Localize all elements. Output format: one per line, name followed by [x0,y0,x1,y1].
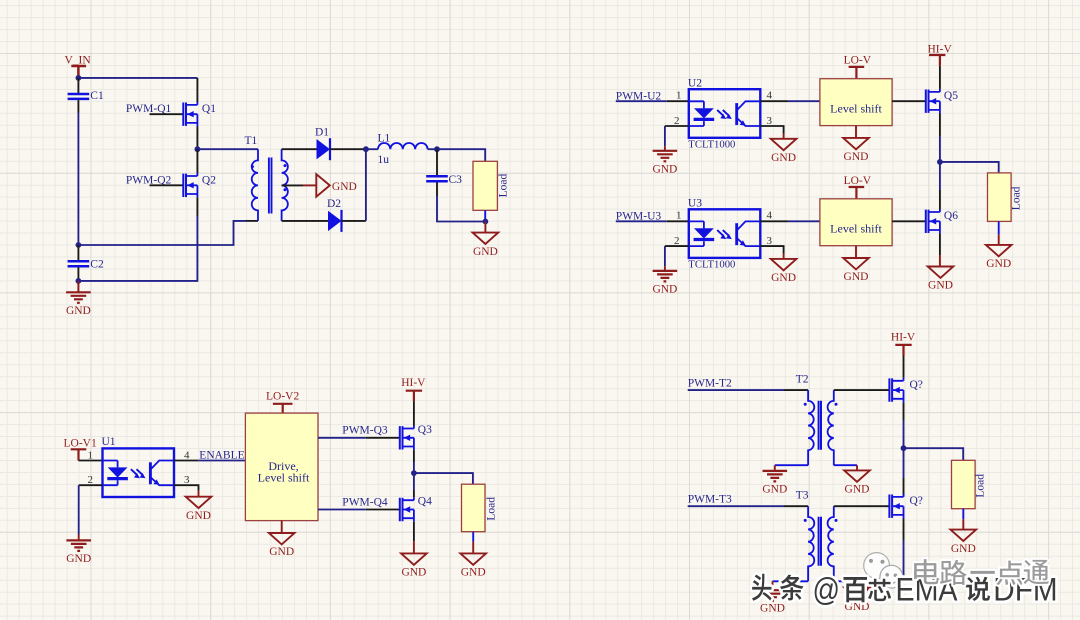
wire D1 cathode to node [330,148,366,150]
wire U2 pin2 to GND [664,126,666,146]
svg-text:T1: T1 [245,135,258,147]
wire to T2 primary [784,389,808,391]
wire GND stem [78,535,80,541]
wire T1 primary bottom pin [246,220,258,222]
transistor Q? (lower) [889,494,903,519]
wire T3 secondary to Q gate [834,505,890,507]
junction node at C2 top [76,242,82,248]
U1 pin 1 wire [79,460,103,462]
wire Q5 source to mid node [939,136,941,162]
U3 pin 3 wire [760,246,783,254]
wire GND stem [198,491,200,497]
power ground GND (Q6 source) [928,267,954,292]
junction node Q3-Q4 midpoint [411,470,417,476]
power port V_IN [65,55,92,78]
ground GND (top-left) [66,292,91,317]
resistor Load (top-right) [988,173,1023,222]
junction node at C2 bottom [76,278,82,284]
resistor Load (bottom-right) [952,460,987,508]
wire GND stem [664,146,666,151]
junction node Q1-Q2 midpoint [195,146,201,152]
transformer T2 [804,390,838,465]
svg-text:HI-V: HI-V [891,331,916,343]
svg-text:LO-V: LO-V [844,175,872,187]
svg-text:Q?: Q? [910,379,923,391]
wire U3 pin2 to GND [664,246,666,266]
power ground GND (level shift) [843,258,869,283]
wire Load1 bottom pin [484,210,486,221]
wire Q source to mid node [903,420,905,448]
wire T3 secondary bottom [834,580,857,582]
capacitor C1 pin top [77,78,79,93]
svg-text:GND: GND [66,305,91,317]
svg-text:LO-V: LO-V [844,55,872,67]
U3 pin 4 wire [760,220,788,222]
svg-text:Load: Load [1011,186,1023,210]
junction node Q-Q midpoint [901,445,907,451]
svg-text:D1: D1 [315,126,329,138]
U1 pin 3 wire [174,485,199,490]
svg-text:2: 2 [88,474,94,486]
wire GND stem T3 secondary [856,581,858,587]
svg-text:HI-V: HI-V [928,43,953,55]
svg-text:PWM-Q4: PWM-Q4 [342,496,388,508]
wire Q4 source down [413,522,415,541]
ground GND (T2 primary) [762,471,787,496]
svg-text:GND: GND [951,543,976,555]
svg-text:Q?: Q? [910,495,923,507]
svg-text:T3: T3 [796,489,809,501]
power port LO-V1 [64,437,97,460]
svg-text:GND: GND [762,483,787,495]
wire lower Q drain [903,448,905,478]
wire Q2 source down [196,198,198,216]
wire Q4 drain [413,473,415,490]
svg-text:GND: GND [652,283,677,295]
svg-text:Load: Load [486,497,498,521]
U2 pin 3 wire [760,126,783,134]
power port HI-V (bottom-left) [401,377,426,401]
svg-text:3: 3 [184,474,190,486]
svg-text:Load: Load [975,474,987,498]
svg-text:U2: U2 [688,77,702,89]
svg-text:Level shift: Level shift [258,470,310,484]
wire C3 bottom to Load1 bottom [437,196,485,222]
power ground GND (bottom-right load) [951,530,977,555]
wire GND stem T2 primary [774,465,776,471]
wire HI-V to Q3 drain [413,401,415,425]
svg-text:GND: GND [401,567,426,579]
transistor Q2 [183,173,197,198]
power ground GND (U3 pin3) [771,259,797,284]
optocoupler U3 [689,209,761,258]
svg-text:TCLT1000: TCLT1000 [688,139,735,151]
wire Q5 source down [939,114,941,137]
wire Load2 bottom pin [998,221,1000,234]
wire net PWM-U2 [616,100,667,102]
transistor Q3 [400,426,414,451]
wire Q1 gate pin [150,113,184,115]
wire D2 cathode to node [342,220,366,222]
resistor Load (top-left) [473,161,509,210]
wire GND stem Load3 [472,542,474,554]
power port HI-V (bottom-right) [891,331,916,355]
wire V_IN rail to Q1 drain [78,77,197,79]
power ground GND (level shift) [843,138,869,163]
svg-text:C1: C1 [90,90,104,102]
transistor Q1 [183,102,197,127]
wire Q2 drain pin [196,149,198,173]
watermark text 头条 @百芯EMA说DFM [752,572,1058,608]
level shift block (Q5 driver) [820,79,892,126]
svg-text:U3: U3 [688,197,702,209]
drive / level shift block [245,413,318,520]
wire Q6 drain pin [939,190,941,209]
svg-text:Q2: Q2 [202,174,216,186]
wire GND stem level-shift [855,246,857,258]
power port LO-V2 [266,390,299,413]
wire T2 primary return [775,464,808,466]
svg-text:LO-V1: LO-V1 [64,437,97,449]
capacitor C1 [68,90,104,102]
wire GND stem level-shift [855,126,857,138]
svg-text:ENABLE: ENABLE [199,449,244,461]
wire T1 center tap [282,184,303,186]
resistor Load (bottom-left) [462,484,498,532]
transformer T1 [251,149,288,221]
power port LO-V [844,175,872,199]
diode D1 [317,138,331,160]
U2 pin 1 wire [667,100,689,102]
wire node to Load1 top [437,149,485,161]
svg-text:GND: GND [844,271,869,283]
wire C1 to lower node [77,113,79,246]
svg-text:D2: D2 [327,198,341,210]
transistor Q5 [926,89,940,114]
junction node Q5-Q6 midpoint [937,159,943,165]
svg-text:GND: GND [928,280,953,292]
power port HI-V (top-right) [928,43,953,66]
wire GND stem Load1 [484,222,486,233]
svg-text:Level shift: Level shift [830,222,882,236]
power ground GND (U2 pin3) [771,139,797,164]
power ground GND (T2 secondary) [844,470,870,495]
U3 pin 2 wire [665,245,689,247]
U2 pin 2 wire [665,125,689,127]
wire GND stem T3 primary [772,581,774,590]
svg-text:GND: GND [461,567,486,579]
wire mid node to Load2 [940,162,999,173]
svg-text:Q6: Q6 [944,210,958,222]
wire GND stem drive block [281,521,283,533]
power ground GND (drive block) [269,533,295,558]
wire GND stem [783,254,785,259]
svg-text:Level shift: Level shift [830,102,882,116]
wire L1 to C3 node [428,148,437,150]
wire U2 pin4 to level shift [788,100,820,102]
wire Q1 drain pin [196,78,198,102]
svg-text:GND: GND [269,546,294,558]
inductor L1 [378,143,428,149]
wire node to L1 [366,148,378,150]
svg-text:1: 1 [676,210,682,222]
svg-text:4: 4 [767,210,773,222]
junction node diode output [363,146,369,152]
wire net PWM-T2 [688,389,784,391]
svg-text:V_IN: V_IN [65,55,92,67]
diode D2 [328,210,342,232]
svg-text:T2: T2 [796,373,809,385]
capacitor C2 pin bottom [77,267,79,281]
wire U1 pin2 to GND [78,485,80,534]
wire HI-V to Q drain [903,356,905,378]
svg-text:GND: GND [473,246,498,258]
svg-text:GND: GND [66,553,91,565]
wire Q source down [903,402,905,420]
wire net PWM-Q4 [318,509,366,511]
transformer T3 [804,506,838,581]
svg-text:GND: GND [652,163,677,175]
wire mid node to Load4 [904,448,964,460]
junction node after L1 [434,146,440,152]
wire level shift out to Q6 gate [892,220,926,222]
wire Q6 drain [939,162,941,190]
wire GND stem Load2 [998,234,1000,245]
wire lower Q source to ground area [903,540,905,581]
capacitor C3 [426,174,462,186]
wire net PWM-T3 [688,505,784,507]
junction node at V_IN rail [76,75,82,81]
capacitor C3 pin top [436,149,438,175]
wire net PWM-Q3 [318,437,366,439]
wire HI-V to Q5 drain [939,66,941,89]
wire mid node to Load3 [414,473,473,484]
wire level shift out to Q5 gate [892,100,926,102]
svg-text:Q1: Q1 [202,103,216,115]
svg-text:GND: GND [844,151,869,163]
wire T2 secondary bottom [834,464,857,466]
svg-text:PWM-T3: PWM-T3 [688,493,732,505]
wire Q3 source to mid node [413,462,415,473]
wire Q3 source down [413,450,415,462]
wire lower Q source down [903,519,905,541]
power ground GND (top-right load) [986,245,1012,270]
svg-text:PWM-T2: PWM-T2 [688,377,732,389]
wire mid node to T1 primary [197,148,258,150]
wire Q2 source to bottom rail [78,216,197,281]
capacitor C3 pin bottom [436,182,438,196]
wire T3 primary return [773,580,809,582]
transistor Q? (upper) [889,378,903,403]
U1 pin 2 wire [79,484,103,486]
wire Load4 bottom pin [962,509,964,519]
wire GND stem [664,266,666,271]
svg-text:U1: U1 [102,436,116,448]
transistor Q6 [926,209,940,234]
wire Q1 source to mid node [196,127,198,150]
svg-text:GND: GND [986,258,1011,270]
ground GND (U1 pin2) [66,540,91,565]
power ground GND (bottom-left load) [460,553,486,578]
ground GND (U2 pin2) [652,151,677,176]
svg-text:GND: GND [332,181,357,193]
wire GND stem T2 secondary [856,465,858,470]
power ground GND (U1 pin3) [186,497,212,522]
svg-text:GND: GND [760,603,785,615]
watermark text 电路一点通 [914,559,1049,585]
svg-text:Load: Load [497,174,509,198]
power port LO-V [844,55,872,79]
wire Q4 drain pin [413,490,415,497]
power port GND (center tap) [303,174,357,197]
U1 pin 4 wire [174,460,198,462]
power ground GND (T3 secondary) [844,588,870,613]
svg-text:LO-V2: LO-V2 [266,390,299,402]
capacitor C2 pin top [77,245,79,261]
ground GND (T3 primary) [760,590,785,615]
wire Load3 bottom pin [472,532,474,542]
wire Q3 gate pin [366,437,400,439]
wire lower node to T1 primary return [78,221,246,245]
ground GND (U3 pin2) [652,271,677,296]
svg-text:GND: GND [186,510,211,522]
wire T1 secondary bottom to D2 [282,220,328,222]
svg-text:Q3: Q3 [418,424,432,436]
wire GND stem [783,134,785,139]
wire GND stem Q4 [413,541,415,553]
svg-text:1u: 1u [378,154,390,166]
wire GND stem Load4 [962,519,964,530]
svg-text:Q4: Q4 [418,496,432,508]
capacitor C1 pin bottom [77,100,79,112]
transistor Q4 [400,497,414,522]
svg-text:GND: GND [771,272,796,284]
U3 pin 1 wire [667,220,689,222]
optocoupler U2 [689,89,761,138]
svg-text:1: 1 [88,450,94,462]
U2 pin 4 wire [760,100,788,102]
svg-text:@: @ [813,572,841,608]
svg-text:Q5: Q5 [944,90,958,102]
power ground GND (top-left load) [473,233,499,258]
wire to T3 primary [784,505,808,507]
capacitor C2 [68,259,104,271]
wire U3 pin4 to level shift [788,220,820,222]
svg-text:TCLT1000: TCLT1000 [688,259,735,271]
wire T1 secondary top to D1 [282,148,317,150]
watermark logo chat bubbles [864,553,903,592]
wire GND stem [77,281,79,292]
optocoupler U1 [103,448,175,497]
power ground GND (Q4 source) [401,553,427,578]
wire Q2 gate pin [150,184,184,186]
wire D2 output up to D1 node [365,149,367,221]
svg-text:PWM-Q3: PWM-Q3 [342,424,388,436]
wire Q6 source down [939,234,941,255]
wire GND stem Q6 [939,255,941,267]
level shift block (Q6 driver) [820,199,892,246]
svg-text:GND: GND [845,484,870,496]
svg-text:C3: C3 [449,174,463,186]
junction node Load1 bottom [483,219,489,225]
wire T2 secondary to Q gate [834,389,890,391]
svg-text:GND: GND [771,152,796,164]
svg-text:1: 1 [676,90,682,102]
wire lower Q drain pin [903,478,905,496]
svg-text:C2: C2 [90,259,104,271]
svg-text:HI-V: HI-V [401,377,426,389]
wire net ENABLE [198,460,245,462]
wire Q4 gate pin [366,509,400,511]
svg-text:4: 4 [767,90,773,102]
wire net PWM-U3 [616,220,667,222]
